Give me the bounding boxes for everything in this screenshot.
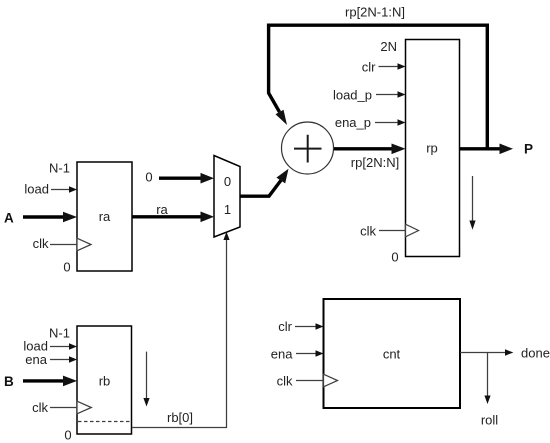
svg-text:N-1: N-1 xyxy=(49,161,70,176)
svg-text:ena: ena xyxy=(25,352,47,367)
dashed lsb line (rb) xyxy=(78,421,131,423)
clock triangle (cnt) xyxy=(324,374,338,387)
svg-text:load: load xyxy=(24,181,49,196)
register ra xyxy=(77,162,132,271)
svg-text:done: done xyxy=(521,345,550,360)
svg-text:0: 0 xyxy=(64,428,71,443)
wire rb[0] to mux select xyxy=(132,232,230,428)
signal clk (rb) xyxy=(32,400,77,415)
svg-text:clr: clr xyxy=(362,59,376,74)
signal clr (rp) xyxy=(362,59,406,74)
svg-text:rb[0]: rb[0] xyxy=(167,410,193,425)
svg-text:N-1: N-1 xyxy=(49,325,70,340)
svg-text:cnt: cnt xyxy=(383,347,401,362)
signal ena_p (rp) xyxy=(335,115,406,130)
svg-text:clr: clr xyxy=(278,319,292,334)
signal load (rb) xyxy=(23,339,77,354)
svg-text:clk: clk xyxy=(360,224,376,239)
svg-text:0: 0 xyxy=(145,170,152,185)
mux xyxy=(214,156,240,238)
adder U1 xyxy=(282,122,334,174)
register rb xyxy=(77,326,132,434)
register rp xyxy=(406,40,460,257)
wire mux output to adder xyxy=(240,169,289,196)
wire adder to rp xyxy=(334,144,406,155)
svg-text:1: 1 xyxy=(224,202,231,217)
svg-text:clk: clk xyxy=(32,400,48,415)
clock triangle (rp) xyxy=(406,224,419,237)
signal load_p (rp) xyxy=(333,88,406,103)
clock triangle (ra) xyxy=(77,238,91,251)
svg-text:2N: 2N xyxy=(380,39,397,54)
output roll xyxy=(481,353,498,428)
svg-text:rp[2N-1:N]: rp[2N-1:N] xyxy=(345,5,405,20)
svg-text:ra: ra xyxy=(99,209,111,224)
svg-text:load_p: load_p xyxy=(333,88,372,103)
clock triangle (rb) xyxy=(77,401,91,414)
output done xyxy=(460,345,550,360)
signal load (ra) xyxy=(24,181,77,196)
constant 0 input to mux xyxy=(145,170,214,185)
counter cnt xyxy=(324,299,461,408)
signal clk (cnt) xyxy=(277,374,324,389)
svg-text:0: 0 xyxy=(63,260,70,275)
svg-text:rb: rb xyxy=(99,374,111,389)
signal clk (ra) xyxy=(33,236,77,251)
signal ena (rb) xyxy=(25,352,77,367)
signal clr (cnt) xyxy=(278,319,323,334)
feedback wire rp[2N-1:N] to adder xyxy=(269,25,488,149)
svg-text:P: P xyxy=(524,142,533,157)
input A xyxy=(4,211,77,226)
svg-text:rp[2N:N]: rp[2N:N] xyxy=(351,155,399,170)
input B xyxy=(4,374,77,389)
svg-text:A: A xyxy=(4,211,14,226)
signal ena (cnt) xyxy=(271,347,324,362)
svg-text:0: 0 xyxy=(391,250,398,265)
svg-text:0: 0 xyxy=(224,174,231,189)
shift direction arrow (rp) xyxy=(469,176,475,230)
svg-text:clk: clk xyxy=(33,236,49,251)
shift direction arrow (rb) xyxy=(143,352,149,407)
svg-text:ena_p: ena_p xyxy=(335,115,371,130)
wire ra to mux input 1 xyxy=(132,212,214,223)
svg-text:ra: ra xyxy=(156,202,168,217)
svg-text:rp: rp xyxy=(426,141,438,156)
svg-text:ena: ena xyxy=(271,347,293,362)
output wire P xyxy=(460,142,534,157)
svg-text:B: B xyxy=(4,374,14,389)
signal clk (rp) xyxy=(360,224,405,239)
svg-text:roll: roll xyxy=(481,413,498,428)
svg-text:clk: clk xyxy=(277,374,293,389)
